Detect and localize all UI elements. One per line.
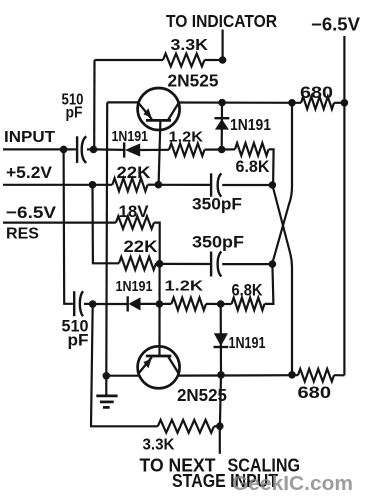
label 6.8K lower bbox=[232, 282, 263, 300]
wire top rail right segment bbox=[205, 59, 223, 61]
wire Q2 base lead bbox=[158, 264, 160, 356]
transistor Q1 base bar bbox=[146, 119, 171, 122]
resistor R 680 top bbox=[301, 97, 334, 110]
wire Q1 emitter stub bbox=[107, 101, 138, 103]
resistor R 680 bottom bbox=[298, 369, 334, 382]
resistor R 6.8K lower bbox=[232, 298, 265, 311]
diode D 1N191 top-right bbox=[215, 118, 230, 129]
wire 6.8K corner bbox=[269, 149, 274, 185]
node junction 1.2K/diode lower bbox=[217, 300, 225, 308]
svg-text:GeekIC.com: GeekIC.com bbox=[232, 473, 353, 495]
label pF top bbox=[66, 105, 83, 122]
node junction +5.2V/lower-22K bbox=[89, 181, 97, 189]
wire base node to 350pF lower bbox=[160, 263, 210, 265]
wire base node to 350pF bbox=[158, 184, 210, 186]
wire left vertical (rail to input cap) bbox=[93, 60, 96, 149]
wire +5.2V to 22K bbox=[93, 184, 113, 186]
node junction Q2 base/1.2K bbox=[156, 300, 164, 308]
resistor R 3.3K top bbox=[163, 54, 205, 67]
svg-text:3.3K: 3.3K bbox=[171, 37, 209, 54]
svg-text:6.8K: 6.8K bbox=[236, 158, 270, 176]
label pF bottom bbox=[68, 332, 89, 350]
svg-text:1N191: 1N191 bbox=[230, 117, 271, 134]
wire Q1 base lead bbox=[159, 120, 161, 184]
wire Q2 emitter stub bbox=[106, 375, 138, 377]
svg-text:2N525: 2N525 bbox=[168, 71, 219, 91]
label 1N191 bottom-right bbox=[229, 335, 266, 352]
resistor R 18V bbox=[116, 216, 154, 229]
svg-text:3.3K: 3.3K bbox=[143, 437, 175, 454]
node junction crossover A bbox=[269, 181, 277, 189]
label STAGE INPUT bbox=[172, 470, 279, 491]
label 2N525 top bbox=[168, 71, 219, 91]
label 1N191 top-right bbox=[230, 117, 271, 134]
node junction 3.3K/next-stage bbox=[216, 422, 224, 430]
wire TO INDICATOR drop bbox=[222, 30, 224, 61]
label INPUT bbox=[4, 129, 55, 146]
wire lower row to diode bbox=[93, 303, 128, 305]
svg-text:350pF: 350pF bbox=[192, 234, 244, 252]
svg-text:1N191: 1N191 bbox=[116, 278, 153, 295]
resistor R 3.3K bottom bbox=[158, 420, 214, 433]
svg-text:22K: 22K bbox=[117, 164, 151, 182]
label 680 top bbox=[300, 84, 333, 102]
svg-text:350pF: 350pF bbox=[192, 196, 242, 214]
diode D 1N191 bottom-right bbox=[214, 333, 229, 347]
capacitor C 510pF top bbox=[77, 136, 86, 163]
label SCALING bbox=[228, 455, 301, 476]
transistor Q2 emitter diagonal bbox=[139, 357, 152, 372]
wire Q1 collector to 680 bbox=[179, 101, 301, 104]
wire bottom-right diode vertical bbox=[220, 304, 223, 375]
transistor Q2 collector diagonal bbox=[168, 357, 178, 373]
resistor R 1.2K top bbox=[169, 143, 205, 156]
wire input row to diode bbox=[94, 148, 125, 151]
wire 22K lower to node bbox=[156, 262, 160, 264]
wire crossover A to lower-collector bbox=[272, 185, 292, 375]
svg-text:+5.2V: +5.2V bbox=[6, 164, 52, 182]
svg-text:−6.5V: −6.5V bbox=[311, 15, 360, 35]
wire crossover 680 to B bbox=[272, 103, 292, 264]
wire input branch vertical bbox=[64, 149, 73, 303]
wire top rail left segment bbox=[95, 59, 164, 61]
capacitor C 510pF bottom bbox=[74, 291, 83, 316]
svg-text:pF: pF bbox=[68, 332, 89, 350]
wire node to 6.8K lower bbox=[221, 303, 232, 305]
transistor Q2 emitter arrow bbox=[143, 359, 151, 369]
wire +5.2V lead bbox=[3, 184, 93, 186]
transistor Q1 emitter diagonal bbox=[139, 104, 152, 119]
label 350pF top bbox=[192, 196, 242, 214]
label 3.3K bottom bbox=[143, 437, 175, 454]
node junction collector/diode lower bbox=[217, 371, 225, 379]
watermark GeekIC.com bbox=[232, 473, 353, 495]
node junction crossover B bbox=[269, 260, 277, 268]
wire 3.3K-branch vertical bbox=[91, 304, 158, 426]
wire input to cap bbox=[64, 148, 76, 150]
wire 680 top to rail bbox=[334, 102, 344, 104]
svg-text:INPUT: INPUT bbox=[4, 129, 55, 146]
svg-text:6.8K: 6.8K bbox=[232, 282, 263, 300]
wire 3.3K to node bbox=[214, 425, 220, 427]
svg-text:22K: 22K bbox=[124, 238, 158, 256]
wire 350pF lower to crossover bbox=[222, 263, 272, 265]
label 510 top bbox=[62, 92, 84, 109]
label -6.5V left bbox=[6, 203, 57, 222]
transistor Q2 2N525 circle bbox=[138, 346, 180, 388]
svg-text:680: 680 bbox=[298, 384, 332, 402]
node junction Q1 base bbox=[155, 181, 163, 189]
wire Q2 collector row bbox=[179, 374, 298, 377]
label 22K lower bbox=[124, 238, 158, 256]
label 350pF lower bbox=[192, 234, 244, 252]
node junction emitter/ground bbox=[103, 372, 111, 380]
wire 22K to base node bbox=[148, 184, 159, 186]
wire 680 bottom to rail bbox=[334, 374, 344, 376]
label 1.2K top bbox=[169, 129, 204, 146]
node junction lower-cap/3.3K-branch bbox=[89, 300, 97, 308]
label 1N191 top-left bbox=[112, 128, 149, 145]
node junction cap/rail-branch bbox=[90, 146, 98, 154]
wire cap to node bbox=[87, 148, 94, 150]
label 680 bottom bbox=[298, 384, 332, 402]
label 1.2K lower bbox=[165, 278, 204, 295]
label 18V bbox=[119, 203, 149, 221]
svg-text:−6.5V: −6.5V bbox=[6, 203, 57, 222]
label TO INDICATOR bbox=[166, 11, 277, 31]
wire input lead bbox=[3, 148, 64, 150]
svg-text:TO INDICATOR: TO INDICATOR bbox=[166, 11, 277, 31]
node junction Q2 base feed bbox=[156, 260, 164, 268]
wire 1.2K to node bbox=[205, 148, 222, 150]
capacitor C 350pF top bbox=[211, 173, 221, 196]
wire diode to 1.2K lower bbox=[141, 303, 172, 305]
label -6.5V top right bbox=[311, 15, 360, 35]
node junction collector/indicator bbox=[218, 99, 226, 107]
wire -6.5V lead bbox=[3, 222, 116, 224]
label 2N525 bottom bbox=[177, 385, 227, 405]
node junction 680/rail bbox=[341, 99, 349, 107]
label +5.2V bbox=[6, 164, 52, 182]
svg-text:680: 680 bbox=[300, 84, 333, 102]
node junction top-rail/indicator bbox=[219, 56, 227, 64]
wire node to 6.8K bbox=[222, 148, 235, 150]
label RES bbox=[6, 226, 39, 243]
svg-text:1.2K: 1.2K bbox=[169, 129, 204, 146]
resistor R 22K top bbox=[112, 178, 147, 191]
transistor Q1 2N525 circle bbox=[138, 88, 180, 130]
diode D 1N191 bottom-left bbox=[128, 296, 141, 311]
label 6.8K top bbox=[236, 158, 270, 176]
wire 6.8K lower corner bbox=[265, 264, 274, 304]
wire -6.5V right rail bbox=[343, 36, 345, 375]
wire next stage drop bbox=[219, 426, 221, 454]
wire diode to 1.2K bbox=[140, 149, 169, 151]
wire top-right diode vertical bbox=[221, 103, 224, 150]
wire 18V corner bbox=[154, 223, 160, 264]
node junction 1.2K/diode bbox=[218, 146, 226, 154]
resistor R 6.8K top bbox=[235, 143, 269, 156]
svg-text:1N191: 1N191 bbox=[229, 335, 266, 352]
transistor Q2 base bar bbox=[146, 355, 172, 358]
node junction input/lower-branch bbox=[60, 146, 68, 154]
svg-text:18V: 18V bbox=[119, 203, 149, 221]
ground bbox=[96, 376, 117, 408]
wire cap to node lower bbox=[84, 303, 93, 305]
node junction collector/crossover lower bbox=[288, 371, 296, 379]
svg-text:1.2K: 1.2K bbox=[165, 278, 204, 295]
svg-text:1N191: 1N191 bbox=[112, 128, 149, 145]
resistor R 1.2K lower bbox=[171, 298, 206, 311]
diode D 1N191 top-left bbox=[124, 142, 140, 157]
resistor R 22K lower bbox=[119, 257, 156, 270]
transistor Q1 emitter arrow bbox=[143, 108, 151, 118]
transistor Q1 collector diagonal bbox=[168, 103, 178, 119]
svg-text:pF: pF bbox=[66, 105, 83, 122]
label 510 bottom bbox=[62, 318, 89, 336]
label TO NEXT bbox=[140, 455, 217, 476]
label 1N191 bottom-left bbox=[116, 278, 153, 295]
capacitor C 350pF lower bbox=[211, 252, 221, 277]
wire 350pF to crossover bbox=[222, 184, 272, 186]
wire 1.2K lower to node bbox=[206, 303, 221, 305]
node junction collector/crossover bbox=[288, 99, 296, 107]
svg-text:RES: RES bbox=[6, 226, 39, 243]
wire diode to 3.3K node bbox=[220, 375, 221, 426]
wire +5.2V branch vertical bbox=[93, 185, 120, 263]
wire emitter vertical (both transistors) bbox=[105, 102, 108, 375]
label 3.3K top bbox=[171, 37, 209, 54]
label 22K top bbox=[117, 164, 151, 182]
